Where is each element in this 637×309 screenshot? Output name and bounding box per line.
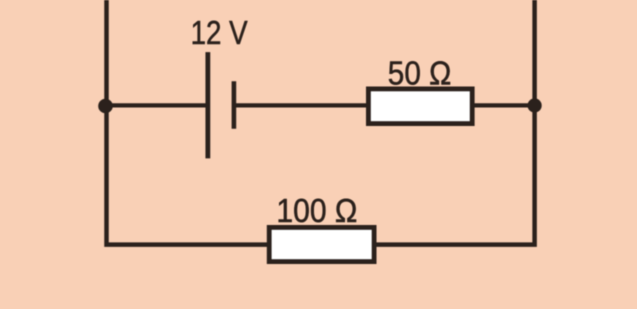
node A junction dot (98, 99, 113, 114)
wire: battery negative plate to node B (passes under resistor R1) (234, 103, 535, 107)
wire: node A to battery positive plate (103, 103, 208, 107)
battery B1 long plate (positive) (205, 52, 210, 158)
svg-text:50 Ω: 50 Ω (388, 55, 452, 92)
wire: left branch up from node A, down and along bottom loop to node B (107, 0, 535, 245)
battery B1 short plate (negative) (232, 81, 237, 129)
svg-text:12 V: 12 V (191, 14, 248, 51)
resistor R2 body (269, 227, 374, 261)
node B junction dot (528, 98, 542, 112)
svg-text:100 Ω: 100 Ω (276, 192, 357, 229)
resistor R1 body (368, 89, 472, 124)
